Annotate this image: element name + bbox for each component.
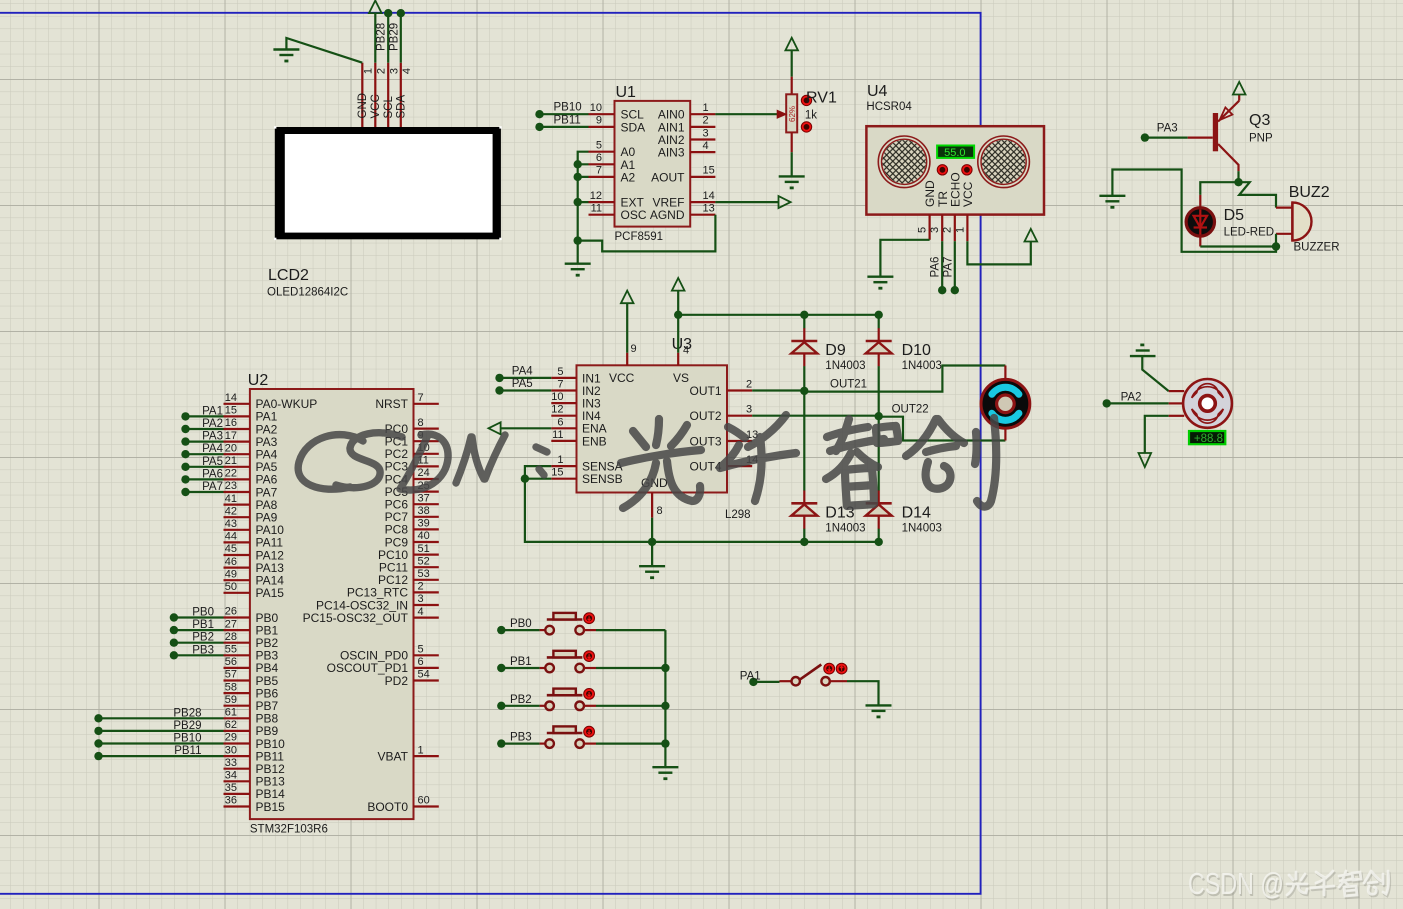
svg-text:62%: 62%	[788, 106, 797, 122]
node PB1 (U2 side)	[170, 626, 178, 634]
svg-text:SDA: SDA	[396, 95, 408, 119]
svg-text:STM32F103R6: STM32F103R6	[250, 824, 328, 836]
power arrow (RV1 top)	[785, 38, 798, 51]
svg-text:22: 22	[225, 468, 237, 480]
wire PB11 to U1 SDA	[540, 126, 589, 128]
U2 pin 53 PC12	[378, 568, 439, 587]
svg-text:51: 51	[418, 543, 430, 555]
U2 pin 6 OSCOUT_PD1	[327, 656, 439, 675]
wire PA1	[186, 415, 224, 417]
svg-text:D10: D10	[902, 342, 931, 359]
node PB2 (U2 side)	[170, 639, 178, 647]
svg-text:41: 41	[225, 493, 237, 505]
U4 right transducer	[978, 136, 1030, 188]
svg-text:46: 46	[225, 556, 237, 568]
wire D13 bottom to rail	[803, 529, 805, 542]
svg-text:50: 50	[225, 581, 237, 593]
U2 pin 57 PB5	[224, 669, 279, 688]
svg-text:3: 3	[703, 127, 709, 139]
node PB10	[535, 110, 543, 118]
U2 pin 26 PB0	[224, 606, 279, 625]
wire U4 VCC to power	[967, 241, 1030, 264]
node PA5	[181, 463, 189, 471]
svg-text:4: 4	[401, 68, 413, 74]
svg-text:PB15: PB15	[256, 800, 286, 814]
ground (PA2 top, inverted)	[1130, 345, 1156, 356]
svg-text:3: 3	[746, 404, 752, 416]
node PB11 (far left)	[94, 752, 102, 760]
svg-text:26: 26	[225, 606, 237, 618]
U2 pin 2 PC13_RTC	[347, 581, 439, 600]
svg-text:1N4003: 1N4003	[825, 360, 865, 372]
ground (U1)	[565, 264, 591, 276]
wire button bus vertical	[664, 630, 666, 767]
wire PB3 (U2 side)	[174, 654, 224, 656]
svg-text:21: 21	[225, 455, 237, 467]
svg-text:12: 12	[551, 404, 563, 416]
wire D14 bottom to rail	[878, 529, 880, 542]
svg-text:RV1: RV1	[806, 90, 837, 107]
power arrow (U3 VS)	[672, 278, 685, 291]
U4 pin label GND (vertical)	[923, 180, 937, 207]
U2 pin 27 PB1	[224, 618, 279, 637]
svg-text:6: 6	[557, 416, 563, 428]
servo speed display +88.8	[1189, 431, 1225, 445]
wire U3 GND down	[651, 518, 653, 567]
svg-text:1: 1	[557, 454, 563, 466]
wire RV1 top	[791, 50, 793, 76]
svg-text:D14: D14	[902, 504, 931, 521]
RV1 top pin stub	[791, 77, 793, 95]
diode D13 1N4003	[791, 490, 817, 528]
svg-text:SCL: SCL	[383, 96, 395, 119]
svg-text:PB1: PB1	[510, 656, 532, 668]
wire PB29 long	[99, 730, 224, 732]
svg-text:PB11: PB11	[174, 745, 201, 757]
svg-text:27: 27	[225, 618, 237, 630]
U2 pin 39 PC8	[385, 518, 439, 537]
motor M2 servo (PA2)	[1169, 379, 1232, 428]
microcontroller U2 STM32F103R6 body	[250, 389, 414, 819]
U2 pin 61 PB8	[224, 707, 279, 726]
U4 pin 3 stub (TR)	[941, 215, 943, 242]
potentiometer RV1 body	[786, 94, 797, 132]
U2 pin 40 PC9	[385, 530, 439, 549]
svg-text:6: 6	[596, 152, 602, 164]
push button PB1	[540, 651, 596, 673]
power arrow (Q3 emitter)	[1233, 82, 1246, 95]
node PB29	[397, 9, 405, 17]
wire LCD SCL up	[387, 13, 389, 63]
transistor Q3 PNP	[1188, 95, 1240, 172]
U4 pin 2 stub (ECHO)	[954, 215, 956, 242]
U2 pin 28 PB2	[224, 631, 279, 650]
U3 pin 1 SENSA	[551, 454, 622, 473]
svg-text:PA6: PA6	[202, 468, 223, 480]
ground (RV1)	[779, 176, 805, 188]
wire OUT2 to motor (OUT22)	[752, 416, 1005, 441]
ground (top-left of LCD)	[273, 50, 299, 62]
wire U3 VCC to power	[626, 303, 628, 353]
svg-text:13: 13	[703, 203, 715, 215]
U3 pin 7 IN2	[551, 379, 601, 398]
node PA7	[951, 286, 959, 294]
RV1 value text 62% (vertical)	[788, 106, 797, 122]
wire U4 TR down	[941, 241, 943, 290]
U2 pin 11 PC3	[385, 455, 439, 474]
wire U1 A0/A1/A2/EXT left rail	[578, 152, 589, 264]
U2 pin 21 PA5	[224, 455, 278, 474]
diode D14 1N4003	[866, 490, 892, 528]
svg-text:1N4003: 1N4003	[902, 360, 942, 372]
svg-text:59: 59	[225, 694, 237, 706]
svg-text:35: 35	[225, 782, 237, 794]
svg-text:SENSB: SENSB	[582, 472, 623, 486]
wire PA7	[186, 491, 224, 493]
wire LCD VCC to power	[374, 13, 376, 63]
U2 pin 51 PC10	[378, 543, 439, 562]
svg-text:PB2: PB2	[510, 694, 532, 706]
svg-text:12: 12	[590, 190, 602, 202]
svg-text:PA7: PA7	[942, 257, 954, 278]
U1 pin 12 EXT	[589, 190, 645, 210]
svg-text:11: 11	[552, 429, 563, 441]
node PA3	[1141, 133, 1149, 141]
U2 pin 10 PC2	[385, 442, 439, 461]
svg-text:23: 23	[225, 480, 237, 492]
node PA6	[938, 286, 946, 294]
wire ENA to terminal	[501, 427, 552, 429]
node D13 bottom	[800, 538, 808, 546]
pin label SCL (vertical)	[383, 96, 395, 119]
svg-text:PB29: PB29	[173, 720, 201, 732]
svg-text:PA15: PA15	[256, 586, 285, 600]
svg-text:60: 60	[418, 795, 430, 807]
U4 indicator dot right	[962, 165, 972, 175]
svg-text:2: 2	[418, 581, 424, 593]
wire D13 top up	[803, 392, 805, 491]
svg-text:1: 1	[363, 68, 375, 74]
U2 pin 1 VBAT	[378, 744, 439, 763]
svg-text:15: 15	[703, 165, 715, 177]
wire LCD SDA up	[400, 13, 402, 63]
svg-text:9: 9	[631, 343, 637, 355]
svg-text:8: 8	[418, 417, 424, 429]
node AGND rail junction	[574, 236, 582, 244]
U2 pin 62 PB9	[224, 719, 279, 738]
svg-text:ENB: ENB	[582, 434, 607, 448]
node PB3 (U2 side)	[170, 651, 178, 659]
wire switch to ground	[847, 681, 879, 705]
svg-text:14: 14	[225, 392, 237, 404]
U3 pin 15 SENSB	[551, 467, 622, 486]
svg-text:PB3: PB3	[510, 732, 532, 744]
wire bottom diode rail	[652, 541, 879, 543]
svg-text:61: 61	[225, 707, 237, 719]
svg-text:1: 1	[703, 102, 709, 114]
U4 left transducer	[878, 136, 930, 188]
wire PA6	[186, 478, 224, 480]
wire node to BUZ2 top	[1239, 182, 1277, 207]
LCD2 pin 2 VCC stub	[374, 63, 376, 127]
node PB1 (button)	[497, 664, 505, 672]
pin number 1	[363, 68, 375, 74]
watermark CSDN calligraphy (decorative)	[298, 433, 547, 490]
U1 pin 9 SDA	[589, 115, 646, 135]
U2 pin 54 PD2	[385, 669, 439, 688]
U2 pin 4 PC15-OSC32_OUT	[303, 606, 439, 625]
ground (button bus)	[652, 767, 678, 779]
ground (Q3/D5/BUZ2)	[1099, 196, 1125, 208]
svg-text:PB1: PB1	[192, 619, 214, 631]
terminal arrow VREF (right-pointing)	[779, 196, 791, 208]
wire PA2 to servo	[1107, 402, 1169, 404]
LCD2 pin 4 SDA stub	[400, 63, 402, 127]
wire PB11 long	[99, 755, 224, 757]
node PB11	[535, 123, 543, 131]
buzzer BUZ2	[1276, 202, 1312, 240]
wire PB1 (U2 side)	[174, 629, 224, 631]
U2 pin 22 PA6	[224, 468, 278, 487]
U3 pin 5 IN1	[551, 366, 601, 385]
svg-text:39: 39	[418, 518, 430, 530]
svg-text:BUZZER: BUZZER	[1294, 242, 1340, 254]
U2 pin 49 PA14	[224, 568, 285, 587]
svg-text:5: 5	[917, 227, 929, 233]
wire RV1 to ground	[791, 152, 793, 176]
svg-text:+88.8: +88.8	[1194, 433, 1223, 445]
wire PB2 to button	[501, 705, 539, 707]
svg-text:29: 29	[225, 732, 237, 744]
svg-text:24: 24	[418, 467, 430, 479]
U3 pin 3 OUT2	[689, 404, 752, 423]
U2 pin 52 PC11	[379, 555, 439, 574]
wire SENSA/SENSB to ground rail	[525, 466, 652, 542]
svg-text:PA7: PA7	[202, 481, 223, 493]
svg-text:PA2: PA2	[202, 418, 223, 430]
node PB29 (far left)	[94, 727, 102, 735]
wire PA3 to Q3 base	[1145, 137, 1188, 139]
U2 pin 34 PB13	[224, 770, 286, 789]
node bus PB3	[661, 739, 669, 747]
svg-text:BUZ2: BUZ2	[1289, 184, 1330, 201]
svg-text:62: 62	[225, 719, 237, 731]
node PA3	[181, 437, 189, 445]
U2 pin 23 PA7	[224, 480, 278, 499]
svg-text:OUT3: OUT3	[689, 434, 721, 448]
svg-text:4: 4	[418, 606, 424, 618]
RV1 wiper arrow	[777, 110, 786, 118]
U1 pin 11 OSC	[589, 203, 647, 223]
node OUT21 junction	[800, 387, 808, 395]
U4 pin label TR (vertical)	[936, 191, 950, 207]
svg-text:54: 54	[418, 669, 430, 681]
U4 pin label ECHO (vertical)	[948, 172, 962, 207]
node PB0 (U2 side)	[170, 613, 178, 621]
svg-text:44: 44	[225, 531, 237, 543]
node bus PB2	[661, 702, 669, 710]
node D9 top	[800, 311, 808, 319]
svg-text:PA2: PA2	[1121, 392, 1142, 404]
switch PA1 (SPST)	[780, 663, 848, 685]
svg-text:OSC: OSC	[621, 208, 647, 222]
pin number 3	[389, 68, 401, 74]
wire node to D5 anode	[1200, 182, 1238, 195]
svg-text:55.0: 55.0	[944, 147, 965, 159]
push button PB3	[540, 726, 596, 748]
svg-text:20: 20	[225, 442, 237, 454]
U1 pin 13 AGND	[650, 203, 716, 223]
node PB28	[384, 9, 392, 17]
node D10 top	[875, 311, 883, 319]
pin label SDA (vertical)	[396, 95, 408, 119]
RV1 bottom pin stub	[791, 132, 793, 152]
wire LCD GND to ground	[286, 38, 362, 63]
node PB3 (button)	[497, 739, 505, 747]
RV1 actuator dot top	[801, 95, 811, 105]
U2 pin 60 BOOT0	[367, 795, 438, 814]
svg-text:AGND: AGND	[650, 208, 685, 222]
U1 pin 7 A2	[589, 165, 636, 185]
node PA4	[495, 374, 503, 382]
svg-text:10: 10	[590, 102, 602, 114]
LCD2 pin 3 SCL stub	[387, 63, 389, 127]
svg-text:LCD2: LCD2	[268, 267, 309, 284]
U4 pin 5 stub (GND)	[928, 215, 930, 240]
svg-text:55: 55	[225, 644, 237, 656]
svg-text:OUT1: OUT1	[689, 384, 721, 398]
net label PA6 (vertical)	[930, 257, 942, 278]
svg-text:L298: L298	[725, 509, 751, 521]
svg-text:5: 5	[418, 644, 424, 656]
svg-text:OLED12864I2C: OLED12864I2C	[267, 287, 348, 299]
node SENSB junction	[521, 475, 529, 483]
svg-text:40: 40	[418, 530, 430, 542]
svg-text:1N4003: 1N4003	[825, 522, 865, 534]
svg-text:2: 2	[376, 68, 388, 74]
diode D9 1N4003	[791, 328, 817, 366]
svg-text:PD2: PD2	[385, 674, 409, 688]
diode D5 LED-RED	[1186, 195, 1214, 247]
svg-text:53: 53	[418, 568, 430, 580]
svg-text:SDA: SDA	[621, 120, 646, 134]
U3 pin 8 GND bottom stub	[652, 493, 663, 518]
U2 pin 38 PC7	[385, 505, 439, 524]
svg-text:PB28: PB28	[376, 23, 388, 51]
svg-text:33: 33	[225, 757, 237, 769]
ground (U4)	[867, 277, 893, 289]
U2 pin 46 PA13	[224, 556, 285, 575]
wire BUZ2 bottom to node	[1275, 234, 1277, 247]
svg-text:34: 34	[225, 770, 237, 782]
svg-text:Q3: Q3	[1249, 112, 1270, 129]
U3 pin 11 ENB	[551, 429, 606, 448]
diode D10 1N4003	[866, 328, 892, 366]
svg-text:VBAT: VBAT	[378, 749, 409, 763]
svg-text:28: 28	[225, 631, 237, 643]
U2 pin 33 PB12	[224, 757, 286, 776]
wire PB0 to button	[501, 629, 539, 631]
node VS junction	[674, 311, 682, 319]
node PA2	[1103, 399, 1111, 407]
svg-text:PB11: PB11	[554, 114, 581, 126]
pin number 3 (vertical)	[929, 227, 941, 233]
svg-text:PB0: PB0	[510, 618, 532, 630]
U3 pin 6 ENA	[551, 416, 606, 435]
svg-text:11: 11	[591, 203, 602, 215]
U4 pin label VCC (vertical)	[961, 181, 975, 207]
svg-text:42: 42	[225, 505, 237, 517]
svg-text:PA4: PA4	[512, 365, 533, 377]
svg-text:43: 43	[225, 518, 237, 530]
svg-text:PA1: PA1	[740, 671, 761, 683]
svg-text:PB2: PB2	[192, 632, 214, 644]
svg-text:30: 30	[225, 744, 237, 756]
svg-text:7: 7	[596, 165, 602, 177]
svg-text:PA1: PA1	[202, 405, 223, 417]
U1 pin 14 VREF	[652, 190, 715, 210]
wire OUT1 to motor (OUT21)	[752, 366, 1005, 392]
node PA1	[181, 412, 189, 420]
svg-text:5: 5	[596, 140, 602, 152]
wire PB1 to button	[501, 667, 539, 669]
svg-text:PA5: PA5	[512, 378, 533, 390]
svg-text:OUT2: OUT2	[689, 409, 721, 423]
wire PA2	[186, 428, 224, 430]
wire Q3 collector to node	[1237, 171, 1239, 182]
svg-text:PB28: PB28	[173, 707, 201, 719]
node D5/BUZ2 junction	[1272, 242, 1280, 250]
svg-text:3: 3	[929, 227, 941, 233]
U2 pin 5 OSCIN_PD0	[340, 644, 439, 663]
svg-text:16: 16	[225, 417, 237, 429]
svg-text:6: 6	[418, 656, 424, 668]
pin number 4	[401, 68, 413, 74]
svg-text:VCC: VCC	[609, 371, 635, 385]
svg-text:PA3: PA3	[1157, 123, 1178, 135]
terminal arrow (down-pointing)	[1139, 453, 1152, 467]
svg-text:2: 2	[942, 227, 954, 233]
svg-text:D9: D9	[825, 342, 846, 359]
wire D9 top connection	[803, 315, 805, 328]
svg-text:OUT22: OUT22	[892, 404, 929, 416]
node PB2 (button)	[497, 702, 505, 710]
ground (U3)	[639, 566, 665, 578]
display LCD2 OLED12864I2C	[274, 126, 502, 240]
U2 pin 16 PA2	[224, 417, 278, 436]
U2 pin 58 PB6	[224, 681, 279, 700]
wire U1 AIN0 to RV1 wiper	[715, 113, 778, 115]
svg-text:2: 2	[746, 379, 752, 391]
wire button PB1 to bus	[596, 667, 665, 669]
svg-text:1k: 1k	[805, 110, 817, 122]
pin label GND (vertical)	[357, 93, 369, 119]
U3 pin 13 OUT3	[689, 429, 758, 448]
U1 pin 1 AIN0	[658, 102, 716, 122]
U2 pin 59 PB7	[224, 694, 279, 713]
node bus PB1	[661, 664, 669, 672]
wire PA5 to IN2	[500, 389, 552, 391]
wire PB10 to U1 SCL	[540, 113, 589, 115]
node EXT junction	[574, 198, 582, 206]
wire D5 cathode to BUZ2 bottom rail	[1200, 245, 1276, 247]
U1 pin 2 AIN1	[658, 115, 716, 135]
power arrow (U3 VCC)	[621, 291, 634, 304]
wire button PB0 to bus	[596, 629, 665, 631]
svg-text:58: 58	[225, 681, 237, 693]
U3 pin 9 VCC top stub	[627, 343, 636, 365]
node PA4	[181, 450, 189, 458]
